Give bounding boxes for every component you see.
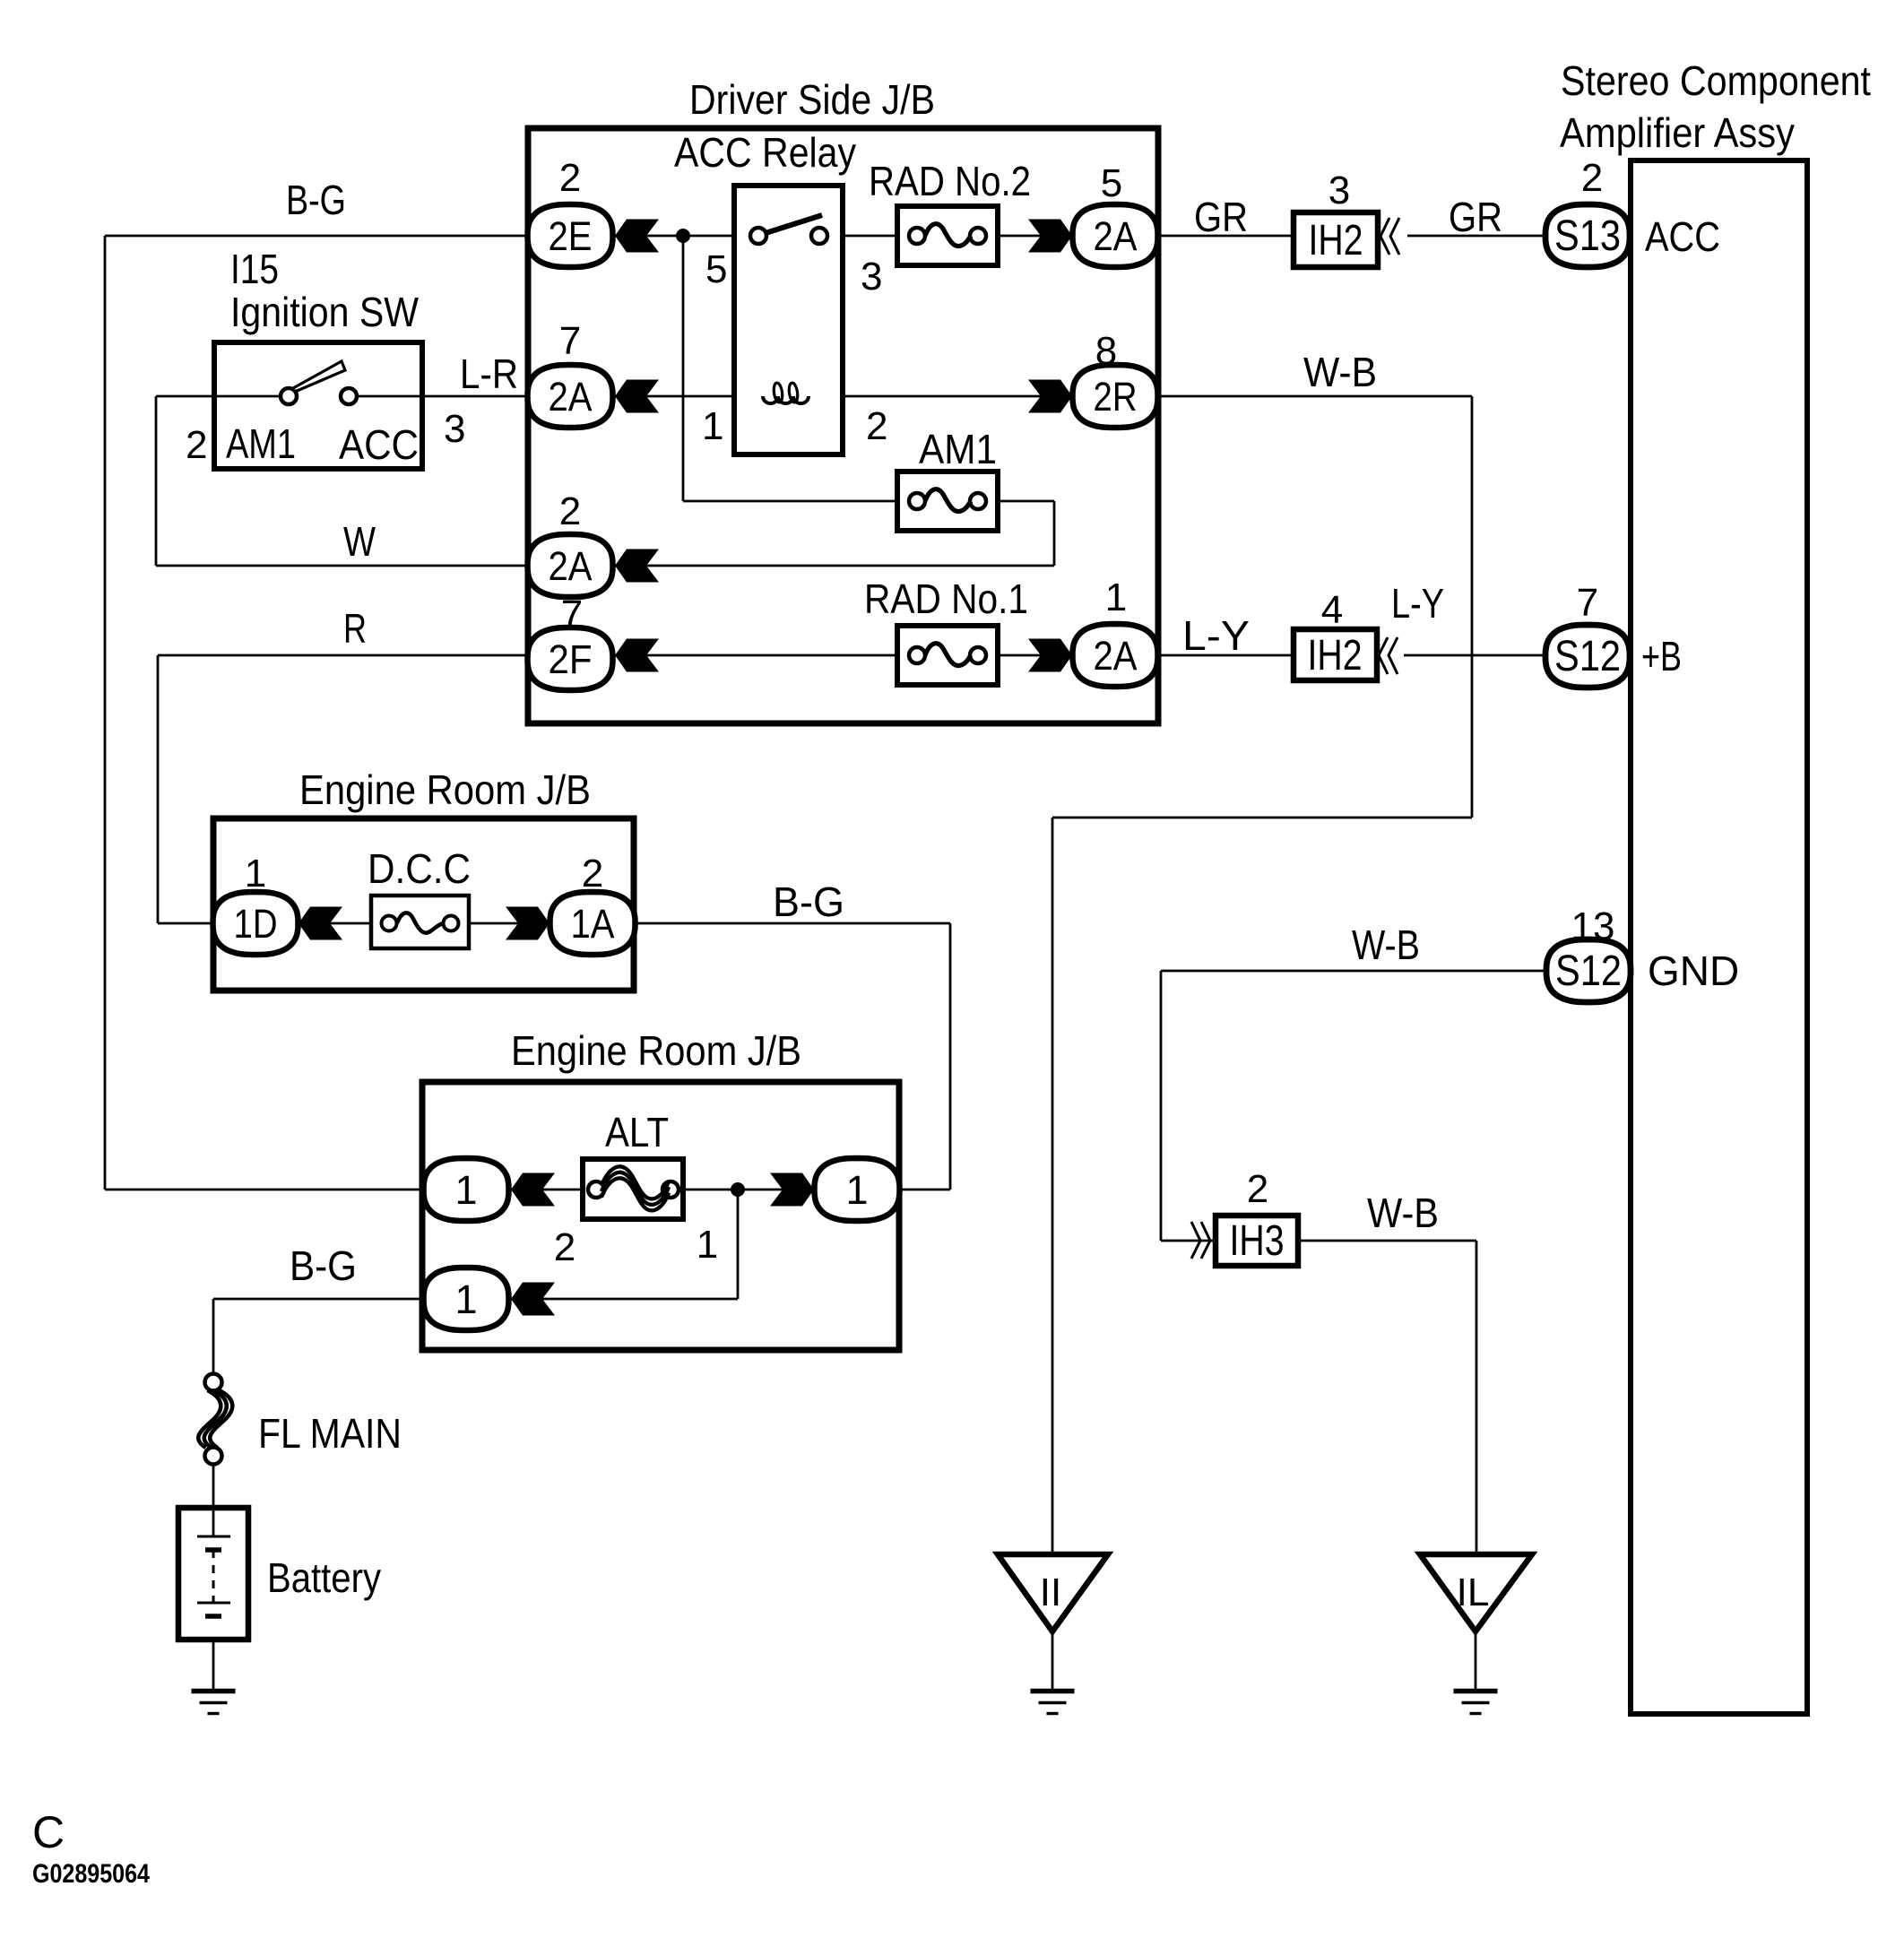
svg-text:1: 1	[702, 404, 723, 448]
svg-text:W-B: W-B	[1352, 922, 1420, 968]
svg-text:2: 2	[559, 489, 581, 533]
svg-text:5: 5	[705, 247, 727, 291]
svg-text:3: 3	[861, 255, 882, 299]
svg-text:II: II	[1040, 1571, 1061, 1614]
svg-text:B-G: B-G	[290, 1242, 357, 1289]
svg-text:W: W	[343, 518, 376, 565]
svg-text:1D: 1D	[234, 901, 278, 947]
svg-text:Engine Room J/B: Engine Room J/B	[299, 766, 591, 813]
svg-text:G02895064: G02895064	[32, 1859, 150, 1889]
svg-text:S12: S12	[1554, 633, 1621, 680]
svg-text:Battery: Battery	[267, 1554, 381, 1601]
svg-text:5: 5	[1101, 161, 1122, 205]
svg-text:2A: 2A	[549, 374, 593, 420]
svg-text:D.C.C: D.C.C	[368, 845, 471, 892]
svg-text:1: 1	[454, 1167, 477, 1213]
svg-text:2A: 2A	[549, 543, 593, 589]
svg-text:B-G: B-G	[773, 878, 844, 925]
svg-text:W-B: W-B	[1367, 1190, 1439, 1236]
svg-text:2: 2	[554, 1225, 576, 1269]
svg-text:3: 3	[1328, 169, 1350, 212]
svg-text:8: 8	[1095, 329, 1117, 373]
svg-text:C: C	[32, 1807, 65, 1857]
svg-text:ALT: ALT	[605, 1109, 669, 1155]
svg-text:2: 2	[1247, 1167, 1268, 1211]
svg-text:Driver Side J/B: Driver Side J/B	[689, 76, 935, 123]
svg-text:GND: GND	[1648, 948, 1739, 994]
svg-text:Amplifier Assy: Amplifier Assy	[1560, 109, 1795, 156]
svg-text:4: 4	[1321, 588, 1343, 632]
svg-text:RAD No.1: RAD No.1	[864, 575, 1028, 622]
svg-text:2E: 2E	[549, 213, 593, 259]
svg-text:7: 7	[1577, 581, 1598, 625]
svg-text:AM1: AM1	[919, 426, 997, 472]
svg-text:2A: 2A	[1094, 633, 1138, 679]
svg-text:S12: S12	[1555, 948, 1622, 995]
svg-text:3: 3	[444, 407, 465, 451]
svg-text:Engine Room J/B: Engine Room J/B	[511, 1027, 801, 1074]
svg-text:+B: +B	[1641, 633, 1682, 679]
svg-text:IH2: IH2	[1309, 217, 1363, 264]
svg-text:1: 1	[697, 1223, 718, 1267]
svg-text:W-B: W-B	[1303, 349, 1377, 395]
svg-text:L-R: L-R	[460, 350, 518, 397]
svg-text:2: 2	[559, 156, 581, 200]
svg-text:2: 2	[582, 852, 603, 896]
svg-text:RAD No.2: RAD No.2	[869, 158, 1031, 204]
svg-text:ACC Relay: ACC Relay	[674, 129, 856, 176]
svg-text:1: 1	[454, 1276, 477, 1322]
svg-text:1A: 1A	[571, 901, 615, 947]
svg-text:R: R	[343, 605, 367, 652]
svg-text:2F: 2F	[549, 636, 593, 682]
svg-text:1: 1	[1105, 575, 1127, 619]
svg-text:L-Y: L-Y	[1182, 612, 1250, 659]
svg-text:Stereo Component: Stereo Component	[1561, 57, 1871, 104]
svg-text:7: 7	[561, 593, 583, 636]
svg-text:ACC: ACC	[339, 421, 419, 468]
svg-text:B-G: B-G	[286, 177, 346, 223]
svg-text:ACC: ACC	[1645, 213, 1720, 260]
svg-text:13: 13	[1571, 904, 1615, 948]
svg-text:IL: IL	[1457, 1571, 1490, 1614]
svg-text:L-Y: L-Y	[1391, 580, 1444, 627]
svg-text:2A: 2A	[1094, 213, 1138, 259]
svg-text:IH2: IH2	[1308, 632, 1363, 679]
svg-text:Ignition SW: Ignition SW	[230, 289, 420, 335]
svg-text:2: 2	[1581, 156, 1603, 200]
svg-text:I15: I15	[230, 246, 279, 292]
svg-text:GR: GR	[1449, 194, 1502, 240]
svg-text:2R: 2R	[1094, 374, 1138, 420]
svg-text:AM1: AM1	[226, 420, 296, 467]
svg-text:7: 7	[559, 319, 581, 363]
svg-text:1: 1	[245, 852, 266, 896]
svg-text:2: 2	[186, 423, 207, 467]
svg-text:GR: GR	[1194, 194, 1248, 240]
svg-text:FL MAIN: FL MAIN	[258, 1410, 402, 1457]
svg-text:1: 1	[845, 1167, 868, 1213]
svg-text:S13: S13	[1554, 212, 1621, 260]
svg-text:IH3: IH3	[1230, 1217, 1285, 1265]
svg-text:2: 2	[866, 404, 887, 448]
